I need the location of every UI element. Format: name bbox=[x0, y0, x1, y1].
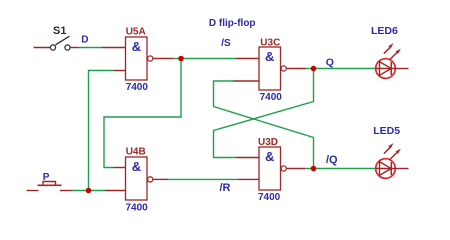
LED5 bbox=[376, 143, 409, 178]
svg-text:U3D: U3D bbox=[258, 137, 278, 148]
junction at node Q bbox=[311, 66, 317, 72]
wire D: switch to U5A input 1 bbox=[71, 47, 126, 49]
svg-text:7400: 7400 bbox=[260, 92, 283, 103]
svg-text:U3C: U3C bbox=[260, 37, 280, 48]
svg-text:D: D bbox=[81, 35, 88, 46]
wire U5A output to node /S junction bbox=[153, 58, 181, 60]
svg-text:/S: /S bbox=[221, 38, 231, 49]
wire /S: junction to U3C input 1 bbox=[181, 58, 259, 60]
NAND gate U3D bbox=[259, 147, 286, 190]
svg-text:LED6: LED6 bbox=[371, 25, 398, 37]
wire: junction down then left then down to U4B input 1 bbox=[104, 59, 181, 168]
svg-text:D flip-flop: D flip-flop bbox=[209, 18, 256, 29]
wire U3D output to node /Q junction bbox=[287, 168, 314, 170]
svg-text:7400: 7400 bbox=[126, 82, 149, 93]
svg-text:&: & bbox=[265, 149, 274, 164]
wire P to junction bbox=[72, 190, 89, 192]
svg-text:&: & bbox=[132, 159, 141, 174]
junction at P wire bbox=[86, 188, 92, 194]
svg-text:LED5: LED5 bbox=[373, 125, 400, 137]
wire /Q feedback: junction up, diagonal to U3C input 2 bbox=[214, 81, 314, 169]
pushbutton P bbox=[27, 182, 73, 191]
svg-text:7400: 7400 bbox=[126, 202, 149, 213]
wire Q to LED6 bbox=[314, 68, 376, 70]
svg-text:&: & bbox=[265, 49, 274, 64]
svg-text:&: & bbox=[132, 39, 141, 54]
switch S1 bbox=[34, 36, 71, 50]
NAND gate U5A bbox=[126, 37, 153, 80]
junction at U5A output bbox=[178, 56, 184, 62]
NAND gate U3C bbox=[259, 47, 286, 90]
svg-text:U4B: U4B bbox=[126, 146, 146, 157]
NAND gate U4B bbox=[126, 157, 153, 200]
svg-text:U5A: U5A bbox=[126, 27, 146, 38]
wire junction up to U5A input 2 bbox=[89, 71, 126, 191]
wire U3C output to node Q junction bbox=[287, 68, 314, 70]
wire /R: U4B output to U3D input 2 bbox=[153, 178, 259, 180]
LED6 bbox=[376, 43, 409, 78]
svg-text:7400: 7400 bbox=[258, 192, 281, 203]
svg-text:/Q: /Q bbox=[326, 154, 338, 166]
junction at node /Q bbox=[311, 166, 317, 172]
svg-text:P: P bbox=[43, 172, 50, 183]
wire junction to U4B input 2 bbox=[89, 190, 126, 192]
svg-text:Q: Q bbox=[326, 57, 334, 69]
svg-text:/R: /R bbox=[220, 182, 231, 194]
svg-text:S1: S1 bbox=[53, 25, 66, 37]
wire /Q to LED5 bbox=[314, 168, 376, 170]
wire Q feedback: junction down, diagonal to U3D input 1 bbox=[214, 69, 314, 158]
